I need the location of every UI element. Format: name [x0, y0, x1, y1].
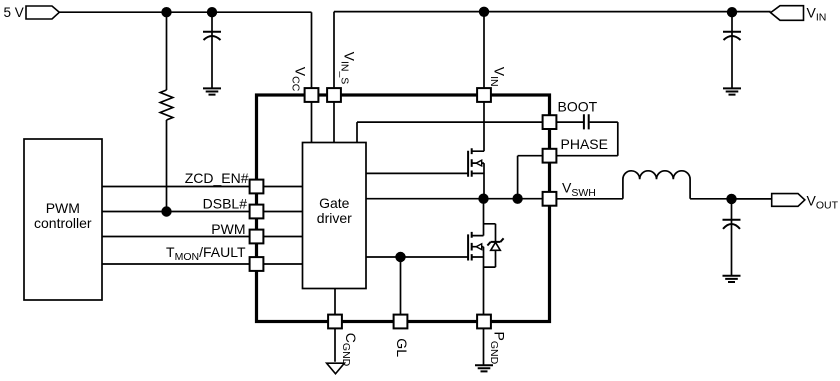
svg-text:PWM: PWM — [211, 221, 245, 237]
svg-text:driver: driver — [317, 210, 352, 226]
svg-text:CGND: CGND — [340, 333, 359, 367]
svg-text:PGND: PGND — [488, 332, 507, 365]
svg-text:VIN: VIN — [488, 67, 507, 87]
svg-text:GL: GL — [394, 338, 410, 357]
svg-text:VOUT: VOUT — [807, 192, 839, 211]
svg-text:VIN_S: VIN_S — [338, 52, 357, 85]
svg-text:controller: controller — [34, 215, 92, 231]
svg-text:Gate: Gate — [319, 195, 350, 211]
svg-text:5 V: 5 V — [4, 5, 24, 20]
svg-text:DSBL#: DSBL# — [203, 196, 248, 212]
svg-text:PHASE: PHASE — [561, 136, 608, 152]
svg-text:VIN: VIN — [807, 4, 827, 23]
svg-text:VSWH: VSWH — [562, 180, 596, 199]
svg-text:ZCD_EN#: ZCD_EN# — [185, 170, 249, 186]
svg-text:PWM: PWM — [46, 200, 80, 216]
svg-text:TMON/FAULT: TMON/FAULT — [166, 244, 246, 263]
svg-text:BOOT: BOOT — [558, 98, 598, 114]
